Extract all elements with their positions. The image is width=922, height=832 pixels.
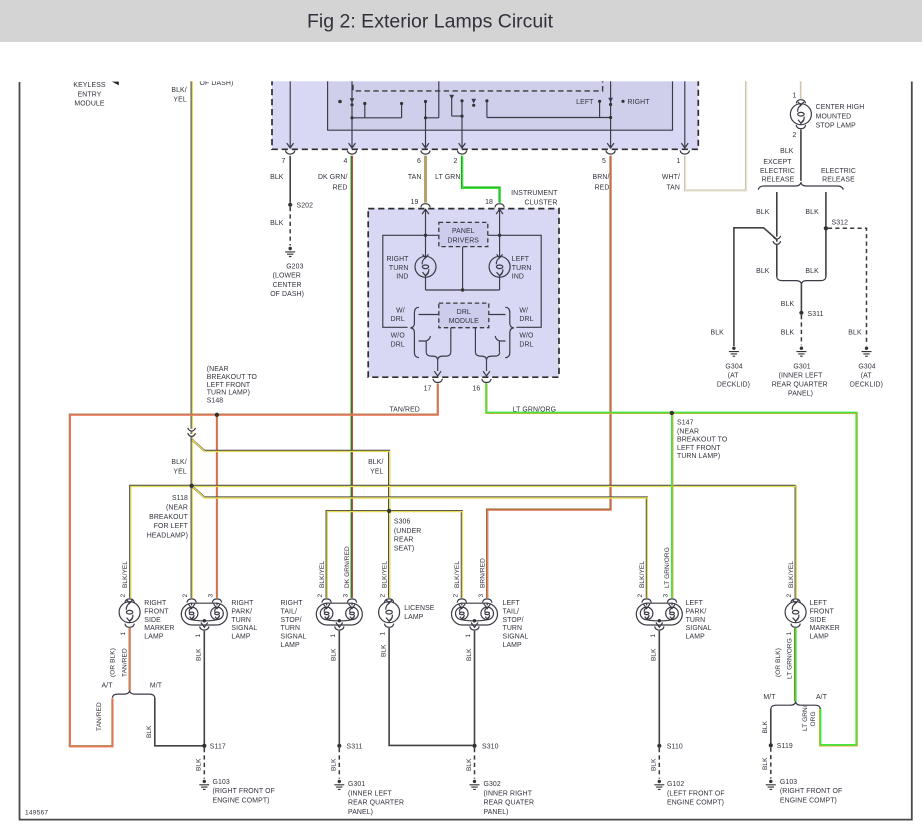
drl module output wires	[451, 328, 476, 353]
svg-text:RELEASE: RELEASE	[822, 177, 855, 184]
svg-text:S119: S119	[777, 743, 793, 750]
pin 1 connector	[470, 626, 479, 630]
wire LT GRN/ORG drop from S147 to left park lamp	[671, 413, 673, 598]
svg-text:S147: S147	[677, 419, 694, 426]
svg-text:CENTER: CENTER	[273, 282, 302, 289]
pin 2 connector	[125, 599, 134, 603]
svg-text:RED: RED	[595, 184, 610, 191]
svg-text:W/: W/	[396, 307, 405, 314]
svg-text:KEYLESS: KEYLESS	[73, 82, 106, 89]
wire BLK except-electric branch	[776, 192, 778, 242]
svg-text:TAN/RED: TAN/RED	[122, 648, 129, 677]
svg-text:LEFT: LEFT	[503, 600, 521, 607]
wire LT GRN pin 2 to cluster pin 18	[462, 156, 500, 203]
pin 7 wire (internal)	[289, 76, 291, 147]
bus below indicator bulbs	[426, 247, 500, 290]
node S202	[288, 203, 292, 207]
svg-text:REAR QUATER: REAR QUATER	[484, 800, 535, 807]
right rail	[488, 235, 541, 327]
w/o drl switch left	[419, 336, 431, 352]
svg-text:ORG: ORG	[810, 711, 817, 726]
svg-text:S118: S118	[172, 495, 188, 502]
svg-text:G301: G301	[793, 363, 810, 370]
svg-text:BLK: BLK	[651, 758, 658, 771]
node S147	[670, 411, 674, 415]
wire to decklid ground G304	[734, 228, 777, 346]
wire BLK/YEL from keyless module	[191, 76, 193, 440]
svg-text:BLK/: BLK/	[368, 459, 383, 466]
svg-text:FRONT: FRONT	[810, 608, 835, 615]
left option brace	[410, 307, 419, 358]
node S117	[202, 744, 206, 748]
svg-text:TURN: TURN	[281, 625, 301, 632]
bulb filament right	[481, 607, 494, 620]
svg-text:TURN: TURN	[231, 617, 251, 624]
svg-text:ENGINE COMPT): ENGINE COMPT)	[667, 800, 724, 807]
svg-text:BLK: BLK	[466, 758, 473, 771]
svg-text:G102: G102	[667, 781, 684, 788]
svg-text:DRL: DRL	[391, 316, 405, 323]
pin 16 connector	[482, 379, 491, 383]
pin connectors under module edge	[286, 150, 295, 154]
module (clipped at top) outer dashed box	[272, 76, 698, 149]
node S310	[472, 744, 476, 748]
svg-text:G304: G304	[725, 363, 742, 370]
svg-text:(RIGHT FRONT OF: (RIGHT FRONT OF	[780, 788, 842, 795]
wire BRN/RED pin 5	[487, 156, 610, 598]
svg-text:TURN LAMP): TURN LAMP)	[207, 390, 250, 397]
svg-text:G103: G103	[780, 779, 797, 786]
node S306 dot	[387, 509, 391, 513]
svg-text:BLK/: BLK/	[171, 87, 186, 94]
wire BLK/YEL S306 to license lamp	[388, 511, 390, 598]
w/drl wire left	[419, 314, 439, 316]
svg-text:LEFT: LEFT	[576, 99, 594, 106]
svg-text:BLK: BLK	[381, 644, 388, 657]
svg-text:LAMP: LAMP	[231, 634, 251, 641]
svg-text:(NEAR: (NEAR	[677, 428, 699, 435]
svg-text:CLUSTER: CLUSTER	[524, 199, 557, 206]
svg-text:LAMP: LAMP	[144, 634, 164, 641]
svg-text:DECKLID): DECKLID)	[717, 381, 750, 388]
filament junction	[203, 619, 206, 622]
svg-text:19: 19	[411, 199, 419, 206]
svg-text:SIDE: SIDE	[810, 617, 827, 624]
svg-text:M/T: M/T	[150, 682, 163, 689]
node S110	[657, 744, 661, 748]
svg-text:SIDE: SIDE	[144, 617, 161, 624]
wire WHT/TAN to stop lamp (clipped)	[800, 76, 802, 99]
svg-text:DK GRN/RED: DK GRN/RED	[344, 546, 351, 588]
svg-text:STOP LAMP: STOP LAMP	[816, 123, 857, 130]
svg-text:MODULE: MODULE	[74, 101, 104, 108]
svg-text:TURN: TURN	[503, 625, 523, 632]
node S148 dot	[215, 413, 219, 417]
pin 1 connector	[200, 626, 209, 630]
svg-text:LEFT: LEFT	[810, 600, 828, 607]
svg-text:6: 6	[417, 158, 421, 165]
node S147 dot	[670, 411, 674, 415]
svg-text:2: 2	[454, 158, 458, 165]
svg-text:BLK: BLK	[146, 725, 153, 738]
svg-text:(INNER LEFT: (INNER LEFT	[779, 372, 823, 379]
svg-text:PARK/: PARK/	[686, 608, 707, 615]
svg-text:S306: S306	[394, 518, 411, 525]
wire BLK dashed to ground	[289, 207, 291, 246]
svg-text:BLK: BLK	[196, 648, 203, 661]
internal bus left of pin4	[352, 105, 402, 118]
svg-text:SIGNAL: SIGNAL	[503, 634, 529, 641]
svg-text:1: 1	[650, 634, 657, 638]
svg-text:HEADLAMP): HEADLAMP)	[147, 533, 188, 540]
svg-text:TAN: TAN	[408, 174, 422, 181]
svg-text:BLK: BLK	[805, 209, 819, 216]
svg-text:INSTRUMENT: INSTRUMENT	[511, 190, 558, 197]
svg-text:1: 1	[786, 632, 793, 636]
svg-text:1: 1	[677, 158, 681, 165]
pin 2 connector	[187, 599, 196, 603]
svg-text:TURN: TURN	[512, 265, 532, 272]
svg-text:G304: G304	[858, 363, 875, 370]
svg-text:(INNER RIGHT: (INNER RIGHT	[484, 790, 533, 797]
wire LT GRN/ORG from cluster pin 16	[487, 384, 857, 746]
svg-text:BLK/YEL: BLK/YEL	[381, 561, 388, 588]
svg-text:PANEL): PANEL)	[788, 390, 813, 397]
floating stub arrow	[471, 99, 476, 104]
node S118	[190, 484, 194, 488]
wire BLK/YEL below connector to S118 and right park lamp	[191, 438, 193, 598]
svg-text:S202: S202	[297, 203, 314, 210]
dashed wire to G301	[800, 315, 802, 345]
svg-text:LAMP: LAMP	[810, 634, 830, 641]
center high mounted stop lamp	[790, 102, 811, 125]
svg-text:PARK/: PARK/	[231, 608, 252, 615]
svg-text:BREAKOUT: BREAKOUT	[149, 514, 189, 521]
svg-text:W/O: W/O	[391, 333, 406, 340]
svg-text:3: 3	[208, 594, 215, 598]
svg-text:2: 2	[452, 594, 459, 598]
svg-text:RIGHT: RIGHT	[231, 600, 254, 607]
svg-text:RED: RED	[333, 184, 348, 191]
svg-text:PANEL): PANEL)	[484, 809, 509, 816]
svg-text:A/T: A/T	[101, 682, 113, 689]
svg-text:ENGINE COMPT): ENGINE COMPT)	[213, 797, 270, 804]
svg-text:RELEASE: RELEASE	[762, 177, 795, 184]
svg-text:BLK: BLK	[270, 174, 284, 181]
svg-text:M/T: M/T	[763, 694, 776, 701]
ground G304 right (at decklid)	[862, 347, 872, 357]
svg-text:2: 2	[786, 594, 793, 598]
svg-text:FRONT: FRONT	[144, 608, 169, 615]
node S148	[215, 413, 219, 417]
svg-text:ELECTRIC: ELECTRIC	[760, 168, 795, 175]
svg-text:2: 2	[637, 594, 644, 598]
internal bus under LEFT dot	[487, 102, 611, 118]
pin 1 connector	[791, 624, 800, 628]
w/o drl switch right	[495, 336, 505, 352]
wire BLK pin 7	[289, 156, 291, 203]
svg-text:BLK/YEL: BLK/YEL	[788, 561, 795, 588]
svg-text:(NEAR: (NEAR	[207, 366, 229, 373]
wire TAN/RED drop from S148 to right park lamp	[216, 415, 218, 598]
svg-text:MARKER: MARKER	[810, 625, 840, 632]
svg-text:(RIGHT FRONT OF: (RIGHT FRONT OF	[213, 788, 275, 795]
node S118 dot	[190, 484, 194, 488]
svg-text:BLK: BLK	[331, 758, 338, 771]
wire BLK below stop lamp	[800, 130, 802, 181]
svg-text:BLK: BLK	[711, 329, 725, 336]
svg-text:S117: S117	[210, 744, 226, 751]
node S306	[387, 509, 391, 513]
lamp bulb	[379, 600, 400, 623]
svg-text:(LEFT FRONT OF: (LEFT FRONT OF	[667, 790, 725, 797]
svg-text:LEFT FRONT: LEFT FRONT	[677, 445, 721, 452]
pin 2 connector	[791, 599, 800, 603]
svg-text:1: 1	[465, 634, 472, 638]
svg-text:(AT: (AT	[728, 372, 740, 379]
svg-text:G203: G203	[286, 263, 303, 270]
svg-text:S148: S148	[207, 397, 224, 404]
svg-text:TAN: TAN	[666, 184, 680, 191]
svg-text:2: 2	[380, 594, 387, 598]
svg-text:STOP/: STOP/	[503, 617, 524, 624]
wire BLK license pin1 to S310	[389, 628, 472, 745]
inline connector on branch	[773, 236, 781, 245]
svg-text:RIGHT: RIGHT	[386, 256, 409, 263]
svg-text:IND: IND	[512, 273, 524, 280]
svg-text:BLK/YEL: BLK/YEL	[639, 561, 646, 588]
node S311 (rear)	[799, 311, 803, 315]
svg-text:LEFT: LEFT	[686, 600, 704, 607]
pin 1 connector	[335, 626, 344, 630]
svg-text:BLK/YEL: BLK/YEL	[122, 561, 129, 588]
svg-text:18: 18	[485, 199, 493, 206]
svg-text:(AT: (AT	[861, 372, 873, 379]
svg-text:MARKER: MARKER	[144, 625, 174, 632]
wire BLK pin1 to S311	[338, 631, 340, 746]
pin 18 wire into cluster	[496, 209, 503, 214]
inline connector on BLK/YEL drop	[188, 428, 196, 437]
svg-text:SIGNAL: SIGNAL	[281, 634, 307, 641]
svg-text:BLK/: BLK/	[171, 459, 186, 466]
svg-text:1: 1	[330, 634, 337, 638]
left rail	[383, 235, 439, 327]
wire WHT/TAN from pin 1	[685, 76, 746, 191]
lamp body	[316, 603, 362, 625]
svg-text:DRIVERS: DRIVERS	[448, 237, 480, 244]
svg-text:ENGINE COMPT): ENGINE COMPT)	[780, 797, 837, 804]
lamp body	[636, 603, 682, 625]
svg-text:W/O: W/O	[519, 333, 534, 340]
svg-text:BRN/: BRN/	[593, 174, 610, 181]
svg-text:S311: S311	[808, 311, 824, 318]
svg-text:BLK: BLK	[762, 757, 769, 770]
wire BLK m/t leg to S119	[770, 709, 772, 744]
svg-text:BLK: BLK	[196, 758, 203, 771]
svg-text:3: 3	[343, 594, 350, 598]
pin 17 connector	[433, 379, 442, 383]
svg-text:17: 17	[424, 385, 432, 392]
filament junction	[473, 619, 476, 622]
svg-text:LT GRN/ORG: LT GRN/ORG	[664, 547, 671, 588]
BLK/YEL diagonal to upper bus	[192, 439, 390, 511]
svg-text:DRL: DRL	[519, 341, 533, 348]
svg-text:BLK: BLK	[331, 648, 338, 661]
svg-text:BLK: BLK	[651, 648, 658, 661]
svg-text:SEAT): SEAT)	[394, 545, 414, 552]
svg-text:1: 1	[793, 93, 797, 100]
right turn indicator bulb	[415, 254, 436, 277]
svg-text:BLK: BLK	[466, 648, 473, 661]
svg-text:1: 1	[380, 632, 387, 636]
svg-text:2: 2	[793, 132, 797, 139]
svg-text:7: 7	[282, 158, 286, 165]
pin 16 collector brace	[475, 352, 499, 359]
wire BLK pin1 to S117	[203, 631, 205, 746]
pin 2 connector	[384, 599, 393, 603]
svg-text:LICENSE: LICENSE	[404, 605, 435, 612]
svg-text:ELECTRIC: ELECTRIC	[821, 168, 856, 175]
left turn indicator bulb	[489, 254, 510, 277]
pin 1 connector	[125, 624, 134, 628]
splice brace under release labels	[758, 182, 843, 190]
svg-text:EXCEPT: EXCEPT	[763, 159, 792, 166]
node S312 dot	[824, 226, 828, 230]
svg-text:WHT/: WHT/	[662, 174, 680, 181]
svg-text:TURN LAMP): TURN LAMP)	[677, 453, 720, 460]
transmission option brace	[112, 690, 154, 697]
wire TAN pin 6 to cluster pin 19	[424, 156, 426, 203]
svg-text:1: 1	[195, 634, 202, 638]
svg-text:REAR QUARTER: REAR QUARTER	[772, 381, 828, 388]
svg-text:OF DASH): OF DASH)	[270, 291, 304, 298]
pin 1 internal wire	[684, 76, 686, 147]
wire BLK/YEL S306 bus to tail lamps	[327, 511, 462, 598]
pin 19 wire into cluster	[422, 209, 429, 214]
svg-text:149567: 149567	[25, 810, 48, 817]
wire TAN/RED below marker pin 1	[129, 628, 131, 690]
bulb filament left	[185, 607, 198, 620]
filament junction	[658, 619, 661, 622]
svg-text:4: 4	[344, 158, 348, 165]
lamp body	[452, 603, 498, 625]
wire BLK below inline connector	[776, 245, 778, 277]
wire BLK m/t leg to S117	[155, 698, 203, 746]
pin 2 connector	[796, 125, 805, 129]
svg-text:LAMP: LAMP	[503, 642, 523, 649]
svg-text:LT GRN/ORG: LT GRN/ORG	[513, 406, 556, 413]
svg-text:LAMP: LAMP	[404, 614, 424, 621]
svg-text:BLK: BLK	[848, 329, 862, 336]
svg-text:G301: G301	[348, 781, 365, 788]
svg-text:16: 16	[472, 385, 480, 392]
svg-text:2: 2	[182, 594, 189, 598]
pin 2 connector	[642, 599, 651, 603]
svg-text:REAR QUARTER: REAR QUARTER	[348, 800, 404, 807]
svg-text:BLK/YEL: BLK/YEL	[454, 561, 461, 588]
wire BLK below brace	[800, 284, 802, 313]
bulb filament left	[320, 607, 333, 620]
svg-text:BLK: BLK	[781, 301, 795, 308]
svg-text:BREAKOUT TO: BREAKOUT TO	[677, 437, 728, 444]
svg-text:PANEL: PANEL	[452, 228, 475, 235]
bulb filament left	[456, 607, 469, 620]
svg-text:(LOWER: (LOWER	[273, 273, 301, 280]
svg-text:BRN/RED: BRN/RED	[479, 558, 486, 588]
svg-text:BLK: BLK	[781, 329, 795, 336]
pin 19 connector	[421, 204, 430, 208]
svg-text:STOP/: STOP/	[281, 617, 302, 624]
right option brace	[505, 307, 514, 358]
node S117 dot	[202, 744, 206, 748]
svg-text:3: 3	[663, 594, 670, 598]
svg-text:DRL: DRL	[457, 309, 471, 316]
RIGHT label and node	[621, 100, 624, 103]
svg-text:IND: IND	[396, 273, 408, 280]
dashed wire from S312 to decklid ground	[828, 228, 867, 345]
module inner solid box	[328, 76, 673, 130]
ground G301 (inner left rear quarter panel)	[796, 347, 806, 357]
svg-text:LEFT FRONT: LEFT FRONT	[207, 382, 251, 389]
wire BLK electric branch	[825, 192, 827, 277]
placeholder groups filled in later	[270, 76, 698, 191]
svg-text:SIGNAL: SIGNAL	[686, 625, 712, 632]
node S312	[824, 226, 828, 230]
svg-text:DRL: DRL	[391, 341, 405, 348]
drl module dashed box	[439, 303, 489, 328]
svg-text:1: 1	[120, 632, 127, 636]
svg-text:(OR BLK): (OR BLK)	[110, 648, 117, 677]
svg-text:CENTER HIGH: CENTER HIGH	[816, 104, 865, 111]
module inner dashed sub-box (clipped)	[353, 76, 603, 91]
w/drl wire right	[489, 314, 506, 316]
pin 1 connector	[796, 100, 805, 104]
pin 1 connector	[384, 624, 393, 628]
svg-text:YEL: YEL	[173, 468, 186, 475]
svg-text:LT GRN/ORG: LT GRN/ORG	[786, 638, 793, 679]
lamp bulb	[785, 600, 806, 623]
pin 5 internal wire	[610, 76, 612, 147]
stub junction dot	[338, 100, 342, 104]
lamp body	[181, 603, 227, 625]
svg-text:(UNDER: (UNDER	[394, 528, 422, 535]
svg-text:S110: S110	[667, 744, 683, 751]
svg-text:FOR LEFT: FOR LEFT	[154, 523, 189, 530]
svg-text:SIGNAL: SIGNAL	[231, 625, 257, 632]
BLK/YEL diagonal to lower bus	[192, 486, 647, 598]
svg-text:BLK: BLK	[780, 148, 794, 155]
svg-text:2: 2	[317, 594, 324, 598]
pin 1 connector	[655, 626, 664, 630]
pin 16 stem	[486, 360, 488, 371]
svg-text:BLK: BLK	[756, 268, 770, 275]
svg-text:RIGHT: RIGHT	[628, 99, 651, 106]
svg-text:YEL: YEL	[370, 468, 383, 475]
pin 2 connector	[457, 599, 466, 603]
svg-text:G103: G103	[213, 779, 230, 786]
pin 17 collector brace	[426, 352, 451, 359]
svg-text:REAR: REAR	[394, 537, 414, 544]
svg-text:TAIL/: TAIL/	[503, 608, 520, 615]
clipped leader arrow	[112, 82, 119, 86]
node S119	[769, 743, 773, 747]
transmission option brace	[771, 702, 821, 709]
svg-text:ENTRY: ENTRY	[78, 91, 102, 98]
svg-text:S310: S310	[482, 744, 499, 751]
svg-text:LAMP: LAMP	[281, 642, 301, 649]
pin 17 stem	[437, 360, 439, 371]
svg-text:RIGHT: RIGHT	[144, 600, 167, 607]
